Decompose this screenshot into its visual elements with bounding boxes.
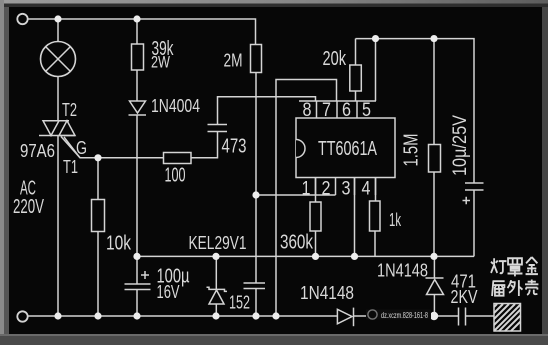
wire IC pin 4 to 1k [375, 178, 377, 201]
svg-text:1N4148: 1N4148 [377, 261, 428, 281]
svg-text:97A6: 97A6 [20, 140, 55, 161]
svg-text:7: 7 [322, 100, 331, 121]
svg-text:1.5M: 1.5M [401, 134, 423, 167]
svg-text:TT6061A: TT6061A [318, 138, 377, 160]
wire IC pin 3 to mid rail [354, 178, 356, 256]
resistor 39k 2W [132, 44, 144, 70]
wire IC pin 7 to bottom rail [276, 80, 337, 317]
svg-text:152: 152 [229, 293, 250, 313]
svg-text:2M: 2M [224, 50, 243, 71]
svg-text:360k: 360k [280, 232, 314, 254]
wire gate node to 10k [97, 158, 99, 199]
svg-text:16V: 16V [157, 282, 180, 302]
svg-text:100: 100 [165, 165, 186, 187]
lamp EL [41, 42, 76, 77]
capacitor 471 2KV [459, 308, 466, 326]
wire triac T1 to bottom rail [57, 136, 59, 317]
node bottom T1 [54, 312, 61, 319]
wire lamp to triac T2 [57, 77, 59, 121]
node mid rail zener [212, 253, 219, 260]
wire 152 zener to bottom rail [215, 304, 217, 316]
wire bottom rail right of diode [354, 315, 459, 317]
svg-text:8: 8 [303, 100, 312, 121]
node mid rail 1N4148 [430, 253, 437, 260]
capacitor 100u 16V [125, 271, 151, 290]
wire vertical 1N4148 to bottom rail [433, 295, 435, 317]
node bottom 1N4148 [430, 312, 438, 320]
wire 10k to bottom rail [97, 232, 99, 317]
resistor 2M [251, 45, 262, 73]
svg-text:T1: T1 [63, 157, 78, 177]
node bottom zener [212, 312, 219, 319]
capacitor 473 [208, 125, 228, 132]
wire 39k top lead [136, 19, 138, 44]
svg-text:4: 4 [362, 179, 371, 200]
label lamp shell char ke [525, 280, 538, 295]
wire node A to 152 cap [255, 195, 257, 283]
svg-text:G: G [76, 138, 87, 158]
node A 2M pin row [252, 191, 259, 198]
svg-text:1: 1 [302, 179, 311, 200]
node top 39k [133, 15, 140, 22]
node bottom 100u [133, 312, 140, 319]
wire 100u cap to bottom rail [136, 290, 138, 317]
node gate [94, 154, 101, 161]
svg-text:KEL29V1: KEL29V1 [189, 232, 247, 253]
wire lamp top lead [57, 19, 59, 42]
svg-text:2KV: 2KV [451, 286, 479, 307]
metal lamp shell [494, 304, 521, 332]
node C rail2 [430, 35, 437, 42]
resistor 1k [370, 201, 381, 231]
diode 1N4148 vertical [426, 278, 444, 295]
svg-text:5: 5 [362, 100, 371, 121]
wire second top rail [356, 39, 475, 183]
wire 1.5M to mid rail [433, 172, 435, 256]
wire bottom rail left [28, 315, 337, 317]
wire 20k top lead from rail [355, 39, 357, 65]
svg-text:3: 3 [342, 179, 351, 200]
svg-text:1N4004: 1N4004 [151, 96, 200, 116]
watermark [366, 310, 431, 321]
wire 39k to 1N4004 [136, 70, 138, 101]
svg-text:6: 6 [342, 100, 351, 121]
svg-text:T2: T2 [62, 100, 77, 120]
resistor 10k [92, 200, 105, 232]
wire mid rail to 100u cap [136, 256, 138, 284]
triac 97A6 [39, 121, 80, 158]
capacitor 10u 25V [463, 183, 484, 204]
wire node B to IC pin 5 [375, 39, 377, 101]
node bottom pin7 wire [272, 312, 279, 319]
resistor 1.5M [429, 145, 441, 173]
resistor 20k [350, 65, 362, 91]
wire node C to 1.5M [433, 39, 435, 145]
svg-text:220V: 220V [13, 196, 44, 218]
wire 1N4004 to mid rail [136, 116, 138, 257]
wire 10u cap to mid rail [473, 190, 475, 256]
wire 471 cap to metal shell [466, 315, 495, 317]
resistor 100 [164, 153, 192, 164]
svg-text:10µ/25V: 10µ/25V [450, 115, 471, 176]
wire mid rail KEL29V1 [137, 255, 474, 257]
wire node A to IC pins 1 2 row [256, 194, 336, 196]
svg-text:1k: 1k [389, 210, 402, 230]
svg-text:1N4148: 1N4148 [300, 283, 354, 303]
op-amp IC TT6061A [296, 101, 395, 195]
resistor 360k [310, 202, 321, 231]
wire 100 resistor to 473 cap [191, 132, 218, 158]
node bottom 152 [252, 312, 259, 319]
wire IC pin 1 divider to 360k [315, 178, 317, 202]
label lamp shell char deng [491, 258, 506, 273]
wire 473 cap to IC pin 8 [218, 97, 316, 125]
wire 152 cap to bottom rail [255, 289, 257, 317]
zener diode KEL29V1 [207, 287, 228, 304]
wire mid rail to 152 zener [215, 256, 217, 289]
node top lamp [54, 15, 61, 22]
capacitor 152 [244, 283, 266, 289]
terminal top left [17, 14, 27, 24]
node B rail2 [372, 35, 379, 42]
terminal bottom left [17, 311, 27, 321]
svg-text:2W: 2W [151, 53, 170, 72]
wire triac gate to 100 resistor [61, 137, 164, 158]
label lamp shell char wai [508, 280, 523, 296]
svg-text:20k: 20k [323, 48, 347, 70]
svg-text:2: 2 [322, 179, 331, 200]
wire 1k to mid rail [374, 231, 376, 256]
diode 1N4004 [129, 101, 147, 115]
wire 20k to IC pin 6 [355, 91, 357, 101]
wire 360k to mid rail [315, 231, 317, 256]
node mid rail pin3 [351, 253, 358, 260]
wire top rail to 2M [28, 19, 256, 45]
label lamp shell char zhao [508, 258, 523, 276]
svg-text:dz.xczm.828-161-8: dz.xczm.828-161-8 [381, 310, 428, 320]
svg-text:10k: 10k [106, 233, 132, 255]
wire 2M to node A [255, 73, 257, 196]
diode 1N4148 horizontal [337, 308, 353, 327]
node mid rail 360k [312, 253, 319, 260]
node bottom 10k [94, 312, 101, 319]
node mid rail 100u [133, 253, 140, 260]
label lamp shell char jin [526, 257, 538, 274]
svg-text:473: 473 [222, 136, 247, 158]
wire mid rail to vertical 1N4148 [433, 256, 435, 278]
label lamp shell char shu [492, 281, 505, 296]
